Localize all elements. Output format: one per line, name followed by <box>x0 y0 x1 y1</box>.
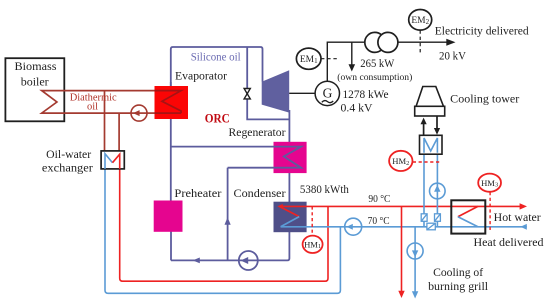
svg-text:Hot water: Hot water <box>494 210 541 224</box>
condenser coil <box>279 206 299 216</box>
preheater <box>154 201 183 232</box>
turbine <box>262 70 290 112</box>
meter HM1 <box>311 206 313 235</box>
svg-text:70 °C: 70 °C <box>368 215 390 227</box>
svg-text:ORC: ORC <box>205 111 230 126</box>
water return arrow <box>520 224 526 230</box>
biomass boiler box <box>5 58 64 121</box>
svg-text:burning grill: burning grill <box>428 279 489 293</box>
svg-text:265 kW: 265 kW <box>360 56 395 70</box>
svg-text:Evaporator: Evaporator <box>175 69 227 83</box>
boiler coil <box>42 91 155 114</box>
svg-text:Cooling of: Cooling of <box>433 265 483 279</box>
cooling tower exchanger box <box>420 135 443 154</box>
pump P-oil <box>131 105 147 121</box>
evaporator E1 <box>155 86 189 119</box>
svg-text:Condenser: Condenser <box>234 186 286 200</box>
meter HM3 <box>489 192 491 232</box>
wire: regenerator coil top line <box>171 147 301 168</box>
wire: ORC vapor line turbine-regenerator-condenser-pump <box>171 110 289 260</box>
svg-text:Silicone oil: Silicone oil <box>191 50 242 64</box>
svg-text:Biomass: Biomass <box>15 59 57 73</box>
svg-text:Heat delivered: Heat delivered <box>474 235 544 249</box>
valve V1 (bypass) <box>244 89 250 99</box>
svg-text:Regenerator: Regenerator <box>229 125 286 139</box>
svg-text:5380 kWth: 5380 kWth <box>300 182 349 196</box>
pump P-70C <box>345 218 362 235</box>
wire: diathermic branch to oil-water exchanger (supply) <box>104 91 106 151</box>
svg-text:90 °C: 90 °C <box>368 193 390 205</box>
generator G <box>315 81 339 105</box>
wire: grill cooling hot line <box>401 206 403 291</box>
transformer T1 <box>365 32 385 52</box>
pump P-ORC <box>239 251 258 270</box>
svg-text:1278 kWe: 1278 kWe <box>343 87 389 101</box>
valve square on 70C line <box>427 223 435 230</box>
svg-text:exchanger: exchanger <box>42 163 93 175</box>
svg-text:EM2: EM2 <box>411 16 429 26</box>
wire: generator to grid <box>327 42 447 81</box>
own consumption arrow <box>351 42 353 65</box>
svg-text:Cooling tower: Cooling tower <box>450 92 519 106</box>
svg-text:Oil-water: Oil-water <box>46 149 91 161</box>
cooling tower circuit verticals <box>423 154 425 227</box>
wire: ORC liquid line preheater-evaporator <box>170 82 172 210</box>
wire: diathermic branch to oil-water exchanger (return) <box>118 113 120 151</box>
svg-text:G: G <box>323 86 333 101</box>
svg-text:oil: oil <box>87 102 98 113</box>
oil-water exchanger box <box>101 151 124 169</box>
wire: regenerator coil bottom riser <box>227 168 229 261</box>
meter EM2 <box>419 30 421 54</box>
wire: turbine to generator <box>289 92 315 94</box>
svg-text:EM1: EM1 <box>300 55 318 65</box>
oil-water exchanger coil <box>105 154 113 169</box>
cold water loop 70C line to oil-water-exchanger <box>105 169 340 293</box>
valve square left <box>421 214 440 230</box>
pump P-CT <box>430 183 446 199</box>
hot water delivery arrow <box>520 203 527 209</box>
flow arrow up on regenerator riser <box>225 217 231 225</box>
wire: 70C return water line <box>281 226 527 228</box>
wire: preheater bottom feed <box>170 225 172 260</box>
hot water loop oil-water-exchanger to 90C line <box>120 169 328 281</box>
svg-text:(own consumption): (own consumption) <box>337 72 412 83</box>
regenerator <box>274 142 307 173</box>
condenser <box>274 202 307 233</box>
valve square right <box>435 214 441 222</box>
wire: silicone oil loop evaporator-top to turbine <box>171 47 263 90</box>
cooling tower arrows <box>423 124 425 136</box>
wire: 90C hot water line <box>279 205 520 207</box>
svg-text:0.4 kV: 0.4 kV <box>341 100 373 114</box>
meter EM1 <box>321 58 339 60</box>
svg-text:Preheater: Preheater <box>174 186 221 200</box>
svg-text:Electricity delivered: Electricity delivered <box>435 24 529 38</box>
wire: turbine bypass line with valve <box>247 47 289 119</box>
pump P-grill <box>407 243 423 259</box>
cooling tower <box>415 87 445 117</box>
wire: grill cooling return line <box>414 227 416 292</box>
hot water exchanger coil <box>458 206 478 216</box>
hot water exchanger box <box>451 200 485 233</box>
svg-text:boiler: boiler <box>21 75 49 89</box>
svg-text:20 kV: 20 kV <box>439 49 466 63</box>
flow arrow left on pump line <box>193 258 200 264</box>
meter HM2 <box>413 161 440 163</box>
